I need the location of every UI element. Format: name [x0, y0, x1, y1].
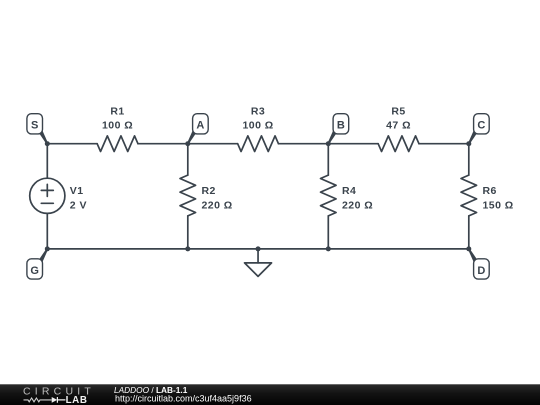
- wire top rail node A to R3: [188, 143, 238, 145]
- svg-text:R2: R2: [202, 185, 216, 197]
- logo wire and resistor squiggle: [24, 398, 52, 402]
- node D leader: [468, 248, 477, 261]
- junction B: [326, 141, 331, 146]
- wire top rail node B to R5: [328, 143, 378, 145]
- junction C: [466, 141, 471, 146]
- svg-text:C: C: [477, 120, 485, 132]
- svg-text:100 Ω: 100 Ω: [102, 119, 133, 131]
- node S leader: [39, 131, 48, 144]
- node D box: [474, 259, 490, 279]
- svg-text:R1: R1: [110, 106, 124, 118]
- wire B down to R4: [327, 144, 329, 175]
- resistor R3: [238, 136, 279, 152]
- junction A bottom: [185, 246, 190, 251]
- svg-text:V1: V1: [70, 185, 84, 197]
- node G box: [27, 259, 43, 279]
- svg-text:R6: R6: [483, 185, 497, 197]
- svg-text:47 Ω: 47 Ω: [386, 119, 411, 131]
- svg-text:150 Ω: 150 Ω: [483, 199, 514, 211]
- svg-text:220 Ω: 220 Ω: [202, 199, 233, 211]
- svg-text:D: D: [477, 265, 485, 277]
- svg-text:2 V: 2 V: [70, 199, 87, 211]
- svg-text:B: B: [337, 120, 345, 132]
- wire top rail S to R1: [47, 143, 97, 145]
- svg-text:G: G: [30, 265, 39, 277]
- resistor R1: [97, 136, 138, 152]
- node B leader: [328, 131, 337, 144]
- wire bottom rail G to D: [47, 248, 469, 250]
- svg-text:220 Ω: 220 Ω: [342, 199, 373, 211]
- node B box: [333, 114, 349, 134]
- wire R2 to bottom rail: [187, 216, 189, 249]
- node G leader: [39, 248, 48, 261]
- svg-text:http://circuitlab.com/c3uf4aa5: http://circuitlab.com/c3uf4aa5j9f36: [115, 393, 252, 403]
- svg-text:R3: R3: [251, 106, 265, 118]
- ground symbol: [245, 263, 272, 277]
- ground stub: [257, 249, 259, 263]
- resistor R2: [180, 175, 196, 216]
- wire top rail R3 to node B: [278, 143, 328, 145]
- resistor R5: [378, 136, 419, 152]
- wire S down to V1 top: [46, 144, 48, 179]
- wire top rail R5 to node C: [419, 143, 469, 145]
- footer bar: [0, 384, 540, 405]
- svg-text:R4: R4: [342, 185, 356, 197]
- node A leader: [187, 131, 196, 144]
- V1 minus sign: [41, 202, 53, 204]
- node A box: [193, 114, 209, 134]
- V1 plus sign: [41, 184, 53, 196]
- resistor R6: [461, 175, 477, 216]
- node C leader: [468, 131, 477, 144]
- voltage source V1 circle: [30, 178, 65, 213]
- svg-text:100 Ω: 100 Ω: [242, 119, 273, 131]
- wire R6 to bottom rail: [468, 216, 470, 249]
- junction S: [45, 141, 50, 146]
- node S box: [27, 114, 43, 134]
- svg-text:S: S: [31, 120, 38, 132]
- svg-text:R5: R5: [391, 106, 405, 118]
- junction G: [45, 246, 50, 251]
- svg-text:A: A: [196, 120, 204, 132]
- wire A down to R2: [187, 144, 189, 175]
- junction D: [466, 246, 471, 251]
- wire C down to R6: [468, 144, 470, 175]
- resistor R4: [321, 175, 337, 216]
- junction ground: [256, 246, 261, 251]
- junction B bottom: [326, 246, 331, 251]
- wire top rail R1 to node A: [138, 143, 188, 145]
- wire V1 bottom to G: [46, 213, 48, 249]
- wire R4 to bottom rail: [327, 216, 329, 249]
- svg-text:LAB: LAB: [66, 395, 88, 405]
- logo diode: [52, 397, 58, 403]
- junction A: [185, 141, 190, 146]
- node C box: [474, 114, 490, 134]
